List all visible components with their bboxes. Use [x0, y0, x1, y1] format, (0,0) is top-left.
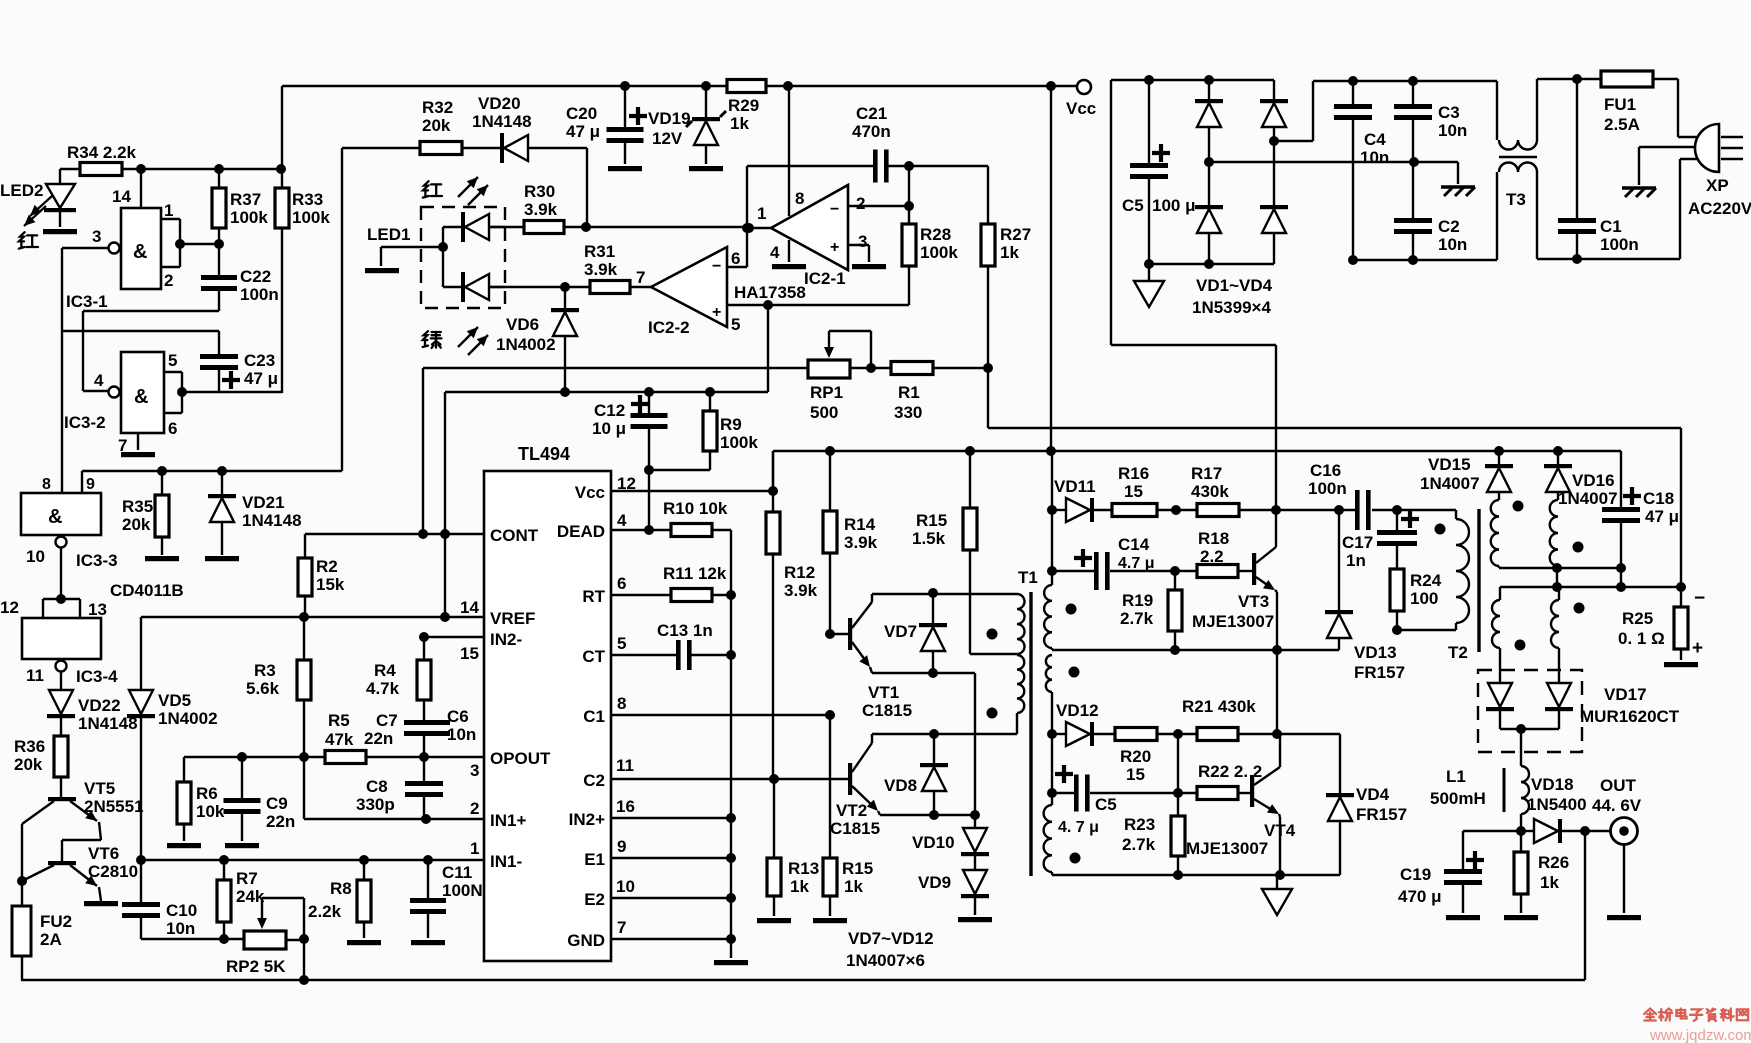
junction C6 bottom: [419, 752, 429, 762]
wire Vcc drive rail: [773, 451, 1621, 491]
wire soft-start node: [445, 391, 768, 393]
svg-text:C1: C1: [1600, 217, 1622, 236]
svg-text:100 μ: 100 μ: [1152, 196, 1196, 215]
resistor R14: [823, 451, 878, 634]
svg-text:C2: C2: [1438, 217, 1460, 236]
T1 secondary winding 3: [1044, 793, 1052, 875]
nand gate IC3-4: [22, 618, 101, 659]
svg-text:1N4148: 1N4148: [242, 511, 302, 530]
svg-text:VD16: VD16: [1572, 471, 1615, 490]
svg-text:VD20: VD20: [478, 94, 521, 113]
svg-text:C2810: C2810: [88, 862, 138, 881]
svg-text:Vcc: Vcc: [1066, 99, 1096, 118]
IC3-1 pins 1-2 bracket: [112, 187, 180, 290]
node Vcc terminal: [1066, 80, 1096, 118]
svg-text:22n: 22n: [364, 729, 393, 748]
svg-text:IC3-3: IC3-3: [76, 551, 118, 570]
svg-text:C18: C18: [1643, 489, 1674, 508]
capacitor C18: [1602, 451, 1679, 568]
svg-text:IC3-4: IC3-4: [76, 667, 118, 686]
svg-text:R29: R29: [728, 96, 759, 115]
resistor R27: [981, 166, 1031, 368]
svg-text:3.9k: 3.9k: [584, 260, 618, 279]
wire VT3 emitter row: [1052, 645, 1339, 655]
junction C2 bottom: [1408, 255, 1418, 265]
wire VREF row: [141, 616, 484, 618]
transformer T2 core: [1448, 509, 1479, 662]
svg-text:47 μ: 47 μ: [244, 369, 278, 388]
svg-text:R33: R33: [292, 190, 323, 209]
svg-text:330: 330: [894, 403, 922, 422]
diode VD10: [912, 815, 989, 870]
svg-text:E1: E1: [584, 850, 605, 869]
svg-text:C16: C16: [1310, 461, 1341, 480]
svg-text:VD9: VD9: [918, 873, 951, 892]
wire pin14 riser: [140, 169, 142, 208]
wire IC2-1 pin8: [788, 86, 790, 216]
resistor R31: [489, 242, 651, 294]
svg-text:−: −: [712, 258, 721, 275]
svg-text:T3: T3: [1506, 190, 1526, 209]
svg-text:R4: R4: [374, 661, 396, 680]
IC3-2 pin 7 ground: [118, 433, 155, 457]
svg-text:1N5399×4: 1N5399×4: [1192, 298, 1271, 317]
capacitor C8: [356, 757, 443, 819]
svg-text:R15: R15: [916, 511, 947, 530]
wire pin6 riser: [742, 166, 752, 267]
svg-text:4: 4: [617, 511, 627, 530]
diode VD4: [1326, 734, 1407, 875]
svg-text:1: 1: [757, 204, 766, 223]
wire riser B: [444, 392, 446, 617]
junction L1 bottom: [1516, 826, 1526, 836]
ground LED1: [365, 225, 410, 273]
diode VD2: [1260, 80, 1288, 162]
T1 primary winding upper: [1017, 594, 1025, 654]
resistor R24: [1390, 569, 1442, 630]
capacitor C16: [1308, 461, 1456, 530]
wire plug earth: [1639, 147, 1700, 185]
svg-text:Vcc: Vcc: [575, 483, 605, 502]
svg-text:10n: 10n: [1438, 235, 1467, 254]
nand gate IC3-3: [21, 476, 101, 535]
wire VT1 collector row: [872, 594, 1017, 602]
wire VT2 collector row: [872, 734, 1017, 743]
svg-text:R16: R16: [1118, 464, 1149, 483]
LED2 light arrows: [24, 196, 52, 226]
svg-text:C10: C10: [166, 901, 197, 920]
svg-text:10n: 10n: [1438, 121, 1467, 140]
wire VT2 emitter row: [878, 810, 975, 820]
wire VD12 node: [1047, 729, 1066, 798]
LED1 dashed box: [421, 207, 505, 308]
wire T3 to FU1: [1537, 78, 1601, 80]
wire LED1 lead: [381, 247, 443, 266]
LED LED1 red: [461, 212, 505, 242]
svg-text:14: 14: [460, 598, 479, 617]
wire Vcc riser: [1050, 87, 1052, 451]
T1 primary centre tap: [970, 653, 1017, 655]
svg-text:2N5551: 2N5551: [84, 797, 144, 816]
junction VT1 base: [825, 629, 850, 639]
svg-text:15: 15: [1124, 482, 1143, 501]
svg-text:IN2+: IN2+: [569, 810, 605, 829]
wire IN2+ row: [612, 813, 736, 823]
svg-text:430k: 430k: [1191, 482, 1229, 501]
wire C1 row: [612, 714, 830, 716]
svg-text:1N4002: 1N4002: [158, 709, 218, 728]
junction R2-R3: [299, 612, 309, 622]
svg-text:2.7k: 2.7k: [1120, 609, 1154, 628]
svg-text:VT5: VT5: [84, 779, 115, 798]
svg-text:2.2: 2.2: [1200, 547, 1224, 566]
IC3-4 pins 12-13 bracket: [0, 594, 107, 619]
svg-text:IC3-2: IC3-2: [64, 413, 106, 432]
svg-text:VT1: VT1: [868, 683, 899, 702]
svg-text:IN1+: IN1+: [490, 811, 526, 830]
svg-text:1: 1: [164, 201, 173, 220]
svg-text:100n: 100n: [240, 285, 279, 304]
wire riser A to RP1: [423, 368, 808, 534]
label XP: [1688, 176, 1751, 218]
wire oscillator bus: [82, 148, 420, 493]
junction C1 drive: [825, 710, 835, 858]
svg-text:16: 16: [616, 797, 635, 816]
junction IC3-1 output: [175, 239, 224, 249]
wire R21 to R22: [1177, 734, 1179, 793]
svg-text:4: 4: [770, 243, 780, 262]
svg-text:VD11: VD11: [1054, 477, 1096, 496]
svg-text:R37: R37: [230, 190, 261, 209]
diode VD17a: [1486, 683, 1514, 729]
svg-text:R14: R14: [844, 515, 876, 534]
label red arrows: [423, 177, 488, 205]
wire riser pin5 node: [767, 305, 769, 392]
transistor VT2: [830, 743, 880, 838]
T2 secondary 1 phase dot: [1513, 501, 1524, 512]
diode VD4 bridge: [1260, 162, 1288, 264]
ground VT6: [84, 901, 118, 906]
svg-text:1k: 1k: [730, 114, 749, 133]
resistor R35: [122, 471, 179, 561]
op-amp IC2-1 labels: [757, 189, 867, 288]
capacitor C20: [566, 86, 647, 171]
capacitor C11: [410, 860, 483, 945]
fuse FU2: [12, 881, 72, 980]
svg-text:L1: L1: [1446, 767, 1466, 786]
resistor R29: [727, 80, 766, 134]
svg-text:VD21: VD21: [242, 493, 285, 512]
svg-text:C1815: C1815: [830, 819, 880, 838]
op-amp IC2-1: [771, 185, 848, 270]
junction C12 top: [644, 387, 654, 397]
svg-text:R34 2.2k: R34 2.2k: [67, 143, 137, 162]
diode VD17b: [1545, 683, 1573, 729]
wire IC3-3 out to IC3-4 in: [60, 548, 62, 599]
label IC3-4: [76, 667, 118, 686]
svg-text:5.6k: 5.6k: [246, 679, 280, 698]
svg-text:C13 1n: C13 1n: [657, 621, 713, 640]
wire bridge AC left link: [1209, 162, 1458, 184]
junction R20-R21: [1173, 729, 1183, 739]
svg-text:VT3: VT3: [1238, 592, 1269, 611]
junction R3-R5-IN1+: [299, 752, 309, 762]
svg-text:12V: 12V: [652, 129, 683, 148]
svg-text:12: 12: [0, 598, 19, 617]
capacitor C23: [62, 331, 278, 393]
svg-text:R24: R24: [1410, 571, 1442, 590]
junction IC2-1 output: [744, 223, 771, 233]
nand gate IC3-1: [121, 208, 161, 289]
svg-text:C22: C22: [240, 267, 271, 286]
svg-text:10n: 10n: [1360, 148, 1389, 167]
label VD7-VD12: [846, 929, 934, 970]
svg-text:R12: R12: [784, 563, 815, 582]
svg-text:IC2-2: IC2-2: [648, 318, 690, 337]
op-amp IC2-2 labels: [636, 249, 806, 337]
TL494 right pin labels: [557, 483, 606, 950]
svg-text:14: 14: [112, 187, 131, 206]
svg-text:XP: XP: [1706, 176, 1729, 195]
svg-text:1N4007×6: 1N4007×6: [846, 951, 925, 970]
svg-text:R23: R23: [1124, 815, 1155, 834]
transistor VT4: [1186, 767, 1296, 858]
diode VD5: [127, 617, 218, 860]
svg-text:5: 5: [731, 315, 740, 334]
svg-text:C7: C7: [376, 711, 398, 730]
svg-text:R2: R2: [316, 557, 338, 576]
svg-text:15: 15: [460, 644, 479, 663]
svg-text:47 μ: 47 μ: [566, 122, 600, 141]
wire VT5 collector: [21, 824, 23, 881]
svg-text:100n: 100n: [1308, 479, 1347, 498]
svg-text:+: +: [712, 304, 721, 321]
wire filter bottom: [1353, 172, 1497, 260]
wire E1 row: [612, 853, 736, 863]
diode VD8: [884, 734, 948, 815]
svg-text:2: 2: [470, 799, 479, 818]
resistor R23: [1122, 793, 1185, 875]
svg-text:10: 10: [616, 877, 635, 896]
svg-text:3.9k: 3.9k: [784, 581, 818, 600]
svg-text:OPOUT: OPOUT: [490, 749, 551, 768]
junction C4 top: [1348, 76, 1358, 86]
junction R8 top: [359, 855, 369, 865]
wire IN2- row: [419, 632, 484, 642]
op-amp IC2-2: [651, 247, 727, 327]
svg-text:DEAD: DEAD: [557, 522, 605, 541]
svg-text:47k: 47k: [325, 730, 354, 749]
junction R24 bottom: [1392, 625, 1456, 635]
label IC3-2: [64, 413, 106, 432]
IC3-4 pin 11 bubble: [26, 661, 67, 686]
svg-text:8: 8: [42, 476, 51, 493]
resistor R26: [1504, 831, 1569, 920]
T1 secondary 1 phase dot: [1066, 604, 1077, 615]
svg-text:RP1: RP1: [810, 383, 843, 402]
svg-text:VD4: VD4: [1356, 785, 1390, 804]
junction R14 top: [825, 446, 835, 456]
svg-text:6: 6: [168, 419, 177, 438]
svg-text:C19: C19: [1400, 865, 1431, 884]
watermark: [1644, 1009, 1751, 1043]
svg-text:&: &: [134, 386, 148, 408]
resistor R13: [757, 779, 819, 923]
capacitor C3: [1394, 81, 1467, 162]
junction C3 top: [1408, 76, 1418, 86]
svg-text:2.2k: 2.2k: [308, 902, 342, 921]
junction CONT riser A: [418, 529, 428, 539]
capacitor C17: [1342, 510, 1419, 570]
svg-text:1k: 1k: [790, 877, 809, 896]
svg-text:1: 1: [470, 839, 479, 858]
wire output minus row: [1500, 568, 1686, 592]
svg-text:VT6: VT6: [88, 844, 119, 863]
svg-text:VD15: VD15: [1428, 455, 1471, 474]
svg-text:R3: R3: [254, 661, 276, 680]
svg-text:C14: C14: [1118, 535, 1150, 554]
svg-text:R7: R7: [236, 869, 258, 888]
svg-text:15k: 15k: [316, 575, 345, 594]
wire IC2-1 pin2: [848, 201, 914, 211]
svg-text:C4: C4: [1364, 130, 1386, 149]
wire RP2 left: [141, 934, 244, 944]
svg-text:R19: R19: [1122, 591, 1153, 610]
label VD1-VD4: [1192, 276, 1273, 317]
label green arrows: [423, 327, 488, 355]
svg-text:FR157: FR157: [1354, 663, 1405, 682]
diode VD20: [462, 94, 587, 163]
svg-text:T2: T2: [1448, 643, 1468, 662]
junction CONT riser B: [440, 529, 450, 539]
T2 secondary winding 3: [1492, 587, 1500, 683]
resistor R16: [1112, 464, 1197, 517]
junction C20 top: [620, 81, 630, 91]
wire E2 row: [612, 893, 736, 903]
zener VD19: [648, 86, 726, 171]
svg-text:MJE13007: MJE13007: [1186, 839, 1268, 858]
wire VT4 collector: [1279, 734, 1281, 767]
junction R35 top: [157, 466, 167, 476]
svg-text:R35: R35: [122, 497, 153, 516]
resistor R22: [1197, 762, 1262, 800]
capacitor C22: [201, 244, 279, 311]
resistor R18: [1175, 529, 1252, 578]
svg-text:R21 430k: R21 430k: [1182, 697, 1256, 716]
wire RP1 to R1: [850, 363, 891, 373]
svg-text:R27: R27: [1000, 225, 1031, 244]
IC2-1 pin4 ground: [772, 240, 806, 269]
wire IN1+ row: [304, 757, 484, 824]
junction C5 top: [1144, 75, 1154, 85]
T2 secondary winding 2: [1550, 500, 1558, 568]
svg-text:4. 7 μ: 4. 7 μ: [1058, 819, 1099, 836]
svg-text:10k: 10k: [196, 802, 225, 821]
resistor R28: [902, 166, 958, 305]
wire OUT ground: [1607, 845, 1641, 920]
svg-text:VD6: VD6: [506, 315, 539, 334]
svg-text:www.jqdzw.com: www.jqdzw.com: [1649, 1027, 1751, 1043]
T1 secondary winding 1: [1044, 571, 1052, 650]
svg-text:C17: C17: [1342, 533, 1373, 552]
svg-text:OUT: OUT: [1600, 776, 1637, 795]
connector XP plug: [1695, 124, 1743, 172]
svg-text:C3: C3: [1438, 103, 1460, 122]
dual diode VD17 box: [1478, 670, 1680, 752]
svg-text:C2: C2: [583, 771, 605, 790]
wire bridge negative row: [1144, 259, 1274, 269]
junction C1 top: [1572, 74, 1582, 84]
resistor R32: [420, 98, 462, 155]
svg-text:R6: R6: [196, 784, 218, 803]
wire output row R30: [564, 222, 749, 232]
resistor R20: [1115, 728, 1197, 785]
wire gnd riser x731: [730, 530, 732, 939]
T1 secondary winding 2: [1046, 655, 1052, 734]
junction VD15 top: [1494, 446, 1504, 456]
wire VD11 drop: [1047, 451, 1057, 576]
svg-text:VD10: VD10: [912, 833, 955, 852]
svg-text:VD13: VD13: [1354, 643, 1397, 662]
junction C11 top: [423, 855, 433, 865]
wire C2 row: [612, 774, 850, 784]
wire R1 to rail: [933, 363, 993, 428]
svg-text:7: 7: [636, 268, 645, 287]
svg-text:IC2-1: IC2-1: [804, 269, 846, 288]
label IC3-1: [66, 292, 108, 311]
svg-text:R10 10k: R10 10k: [663, 499, 728, 518]
svg-text:500: 500: [810, 403, 838, 422]
svg-text:−: −: [1694, 588, 1705, 609]
svg-text:LED2: LED2: [0, 181, 43, 200]
IC3-2 pins 5-6 bracket: [164, 351, 182, 438]
svg-text:TL494: TL494: [518, 444, 570, 464]
wire CT row: [612, 654, 676, 656]
wire CONT row: [305, 533, 484, 535]
ground drive circuit: [1262, 875, 1292, 915]
diode VD12: [1056, 701, 1115, 746]
T2 secondary 2 phase dot: [1573, 542, 1584, 553]
svg-text:VD8: VD8: [884, 776, 917, 795]
T1 secondary 3 phase dot: [1070, 853, 1081, 864]
wire IC3-1 pin3 to IC3-3 pin8: [62, 248, 108, 493]
svg-text:3.9k: 3.9k: [844, 533, 878, 552]
svg-text:R5: R5: [328, 711, 350, 730]
svg-text:5: 5: [617, 634, 626, 653]
svg-text:470 μ: 470 μ: [1398, 887, 1442, 906]
junction R34-pin14: [136, 164, 146, 174]
svg-text:0. 1 Ω: 0. 1 Ω: [1618, 629, 1665, 648]
junction VD1 top: [1204, 75, 1214, 85]
svg-text:T1: T1: [1018, 568, 1038, 587]
svg-text:HA17358: HA17358: [734, 283, 806, 302]
resistor R25: [1618, 587, 1705, 667]
svg-text:1N4002: 1N4002: [496, 335, 556, 354]
inductor L1: [1430, 729, 1529, 831]
svg-text:+: +: [1692, 638, 1703, 659]
svg-text:C23: C23: [244, 351, 275, 370]
junction IC2 pin8 riser: [783, 81, 793, 91]
wire LED1 common: [438, 227, 461, 287]
svg-text:VT2: VT2: [836, 801, 867, 820]
svg-text:C5: C5: [1095, 795, 1117, 814]
wire bridge top bus: [1111, 80, 1276, 510]
svg-text:FU2: FU2: [40, 912, 72, 931]
svg-text:R26: R26: [1538, 853, 1569, 872]
svg-text:GND: GND: [567, 931, 605, 950]
resistor R15 second: [813, 858, 873, 923]
diode VD6: [496, 287, 579, 392]
